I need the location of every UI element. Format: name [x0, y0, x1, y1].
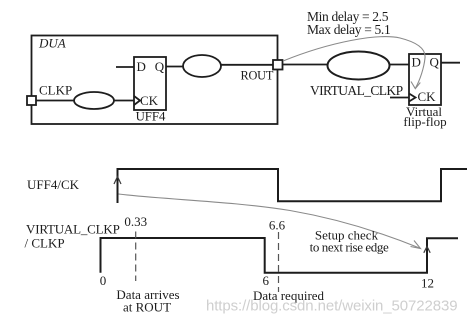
svg-text:0: 0: [100, 273, 107, 288]
svg-text:Q: Q: [430, 55, 440, 70]
svg-text:UFF4: UFF4: [136, 110, 166, 124]
svg-text:to next rise edge: to next rise edge: [310, 240, 389, 255]
svg-text:Max delay = 5.1: Max delay = 5.1: [307, 22, 390, 37]
svg-text:https://blog.csdn.net/weixin_5: https://blog.csdn.net/weixin_50722839: [206, 298, 457, 315]
svg-text:D: D: [412, 55, 421, 70]
svg-text:VIRTUAL_CLKP: VIRTUAL_CLKP: [26, 222, 120, 237]
svg-text:at ROUT: at ROUT: [123, 300, 171, 315]
svg-text:6.6: 6.6: [269, 218, 286, 233]
svg-text:CK: CK: [140, 93, 159, 108]
svg-text:Q: Q: [155, 59, 165, 74]
svg-text:CK: CK: [418, 89, 437, 104]
svg-text:D: D: [137, 59, 146, 74]
svg-text:0.33: 0.33: [124, 214, 147, 229]
svg-text:UFF4/CK: UFF4/CK: [27, 177, 80, 192]
svg-text:flip-flop: flip-flop: [403, 114, 446, 129]
svg-text:12: 12: [421, 276, 434, 291]
svg-text:DUA: DUA: [38, 36, 66, 51]
svg-text:/ CLKP: / CLKP: [25, 236, 65, 251]
svg-text:ROUT: ROUT: [241, 69, 274, 83]
svg-text:VIRTUAL_CLKP: VIRTUAL_CLKP: [310, 83, 403, 98]
svg-text:6: 6: [263, 273, 270, 288]
svg-text:CLKP: CLKP: [39, 83, 72, 98]
